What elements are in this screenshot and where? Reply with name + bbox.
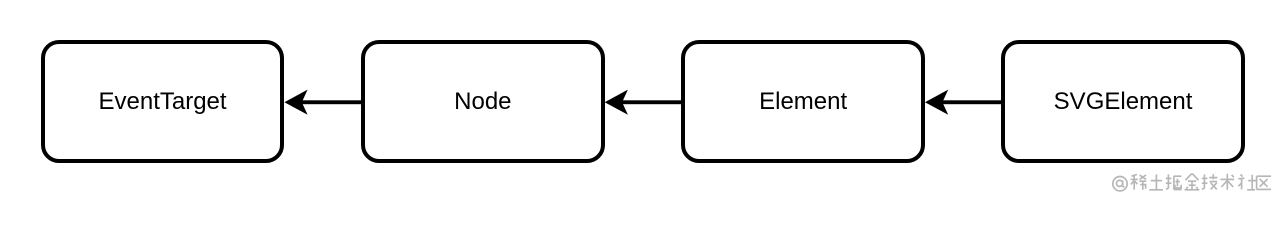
box Element bbox=[681, 40, 925, 164]
glyph 金 bbox=[1185, 174, 1200, 190]
glyph 稀 bbox=[1131, 174, 1147, 189]
glyph 技 bbox=[1202, 174, 1218, 189]
arrow SVGElement to Element : shaft bbox=[941, 100, 1004, 104]
watermark @稀土掘金技术社区 bbox=[1113, 174, 1271, 191]
glyph @ bbox=[1113, 177, 1127, 191]
glyph 社 bbox=[1238, 174, 1256, 189]
glyph 土 bbox=[1149, 174, 1163, 189]
box SVGElement bbox=[1001, 40, 1245, 164]
glyph 术 bbox=[1220, 174, 1234, 190]
arrow SVGElement to Element : head bbox=[925, 90, 948, 115]
arrow Node to EventTarget : shaft bbox=[300, 100, 363, 104]
box Node bbox=[361, 40, 605, 164]
arrow Node to EventTarget : head bbox=[284, 90, 307, 115]
box EventTarget bbox=[41, 40, 285, 164]
arrow Element to Node : shaft bbox=[620, 100, 683, 104]
arrow Element to Node : head bbox=[605, 90, 628, 115]
glyph 区 bbox=[1257, 176, 1271, 189]
glyph 掘 bbox=[1166, 174, 1182, 189]
